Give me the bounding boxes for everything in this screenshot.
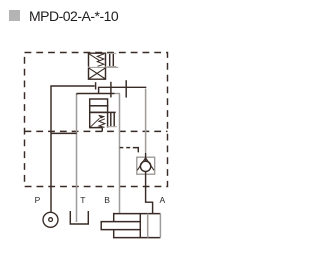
wire A vertical gray — [145, 89, 147, 154]
valve V2 box A — [90, 99, 108, 106]
cylinder rod — [101, 222, 140, 230]
wire P to plug — [51, 86, 95, 212]
port label B — [104, 195, 110, 205]
dashed divider between modules — [25, 130, 168, 132]
wire T vertical gray — [76, 94, 78, 96]
check valve CV box — [137, 157, 155, 174]
valve V1 box2 closed X — [89, 68, 106, 80]
pilot dashed line — [120, 147, 124, 149]
title text MPD-02-A-*-10 — [29, 8, 118, 24]
wire P-T link lower module — [51, 132, 77, 134]
wire A upper — [99, 87, 147, 93]
tank symbol — [70, 211, 88, 224]
wire B vertical gray — [119, 94, 121, 214]
valve V2 lower section — [90, 112, 108, 127]
wire T-B horizontal — [77, 93, 115, 95]
valve V1 body box1 — [89, 53, 106, 67]
check valve ball — [140, 161, 150, 171]
valve V1 shadow line — [89, 66, 119, 68]
cylinder right wall gray — [159, 214, 161, 238]
valve V2 box B — [90, 106, 108, 113]
valve V2 spring — [99, 119, 105, 128]
plug tick — [95, 82, 97, 89]
node tick 2 — [125, 80, 127, 97]
title bullet square — [9, 10, 20, 21]
valve V1 flow arrow — [89, 54, 100, 61]
cylinder piston — [139, 214, 141, 238]
valve V2 arrow — [90, 118, 99, 127]
pump circle — [43, 212, 58, 227]
valve V2 II bars — [107, 113, 117, 127]
cylinder barrel — [114, 214, 161, 238]
pump inner dot — [49, 218, 53, 222]
node tick 1 — [110, 82, 112, 98]
valve V1 adjuster II bars — [107, 53, 116, 66]
port label A — [160, 195, 166, 205]
valve V2 top cap line — [90, 111, 116, 113]
check valve seat — [137, 158, 154, 171]
check valve line out to A port — [146, 172, 153, 214]
check valve line in — [145, 153, 147, 161]
port label T — [80, 195, 85, 205]
dashed enclosure upper module — [25, 53, 168, 187]
port label P — [35, 195, 41, 205]
valve V2 drain stub — [101, 128, 103, 132]
valve V1 spring — [97, 54, 104, 66]
